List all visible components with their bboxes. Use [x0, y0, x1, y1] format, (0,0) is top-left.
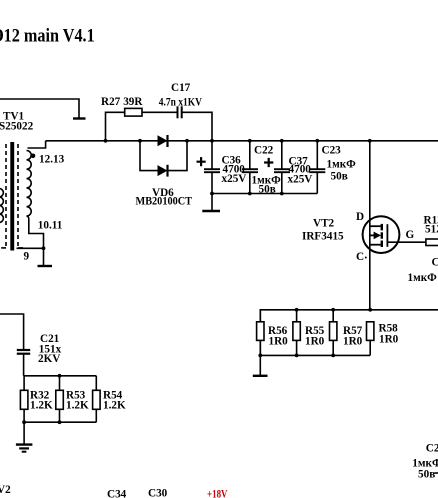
- svg-text:V2: V2: [0, 484, 11, 496]
- svg-text:Э12 main V4.1: Э12 main V4.1: [0, 26, 95, 47]
- svg-text:512: 512: [425, 224, 438, 236]
- svg-text:1R0: 1R0: [343, 336, 363, 348]
- svg-text:1.2K: 1.2K: [103, 400, 126, 412]
- svg-text:C30: C30: [148, 488, 168, 498]
- svg-text:1R0: 1R0: [305, 336, 325, 348]
- svg-text:VT2: VT2: [313, 218, 335, 230]
- svg-text:1мкФ: 1мкФ: [327, 159, 357, 171]
- svg-text:C17: C17: [171, 82, 191, 94]
- svg-text:10.11: 10.11: [38, 220, 63, 232]
- svg-text:1R0: 1R0: [269, 336, 289, 348]
- svg-text:+18V: +18V: [207, 489, 228, 498]
- svg-text:G: G: [406, 229, 415, 241]
- svg-text:2KV: 2KV: [38, 353, 60, 365]
- svg-text:9: 9: [24, 251, 30, 263]
- svg-text:50в: 50в: [331, 171, 348, 183]
- svg-text:1.2K: 1.2K: [66, 400, 89, 412]
- svg-text:C34: C34: [107, 489, 127, 498]
- svg-text:MB20100CT: MB20100CT: [136, 196, 193, 208]
- svg-text:50в: 50в: [259, 183, 276, 195]
- svg-text:D: D: [356, 211, 364, 223]
- svg-text:C22: C22: [254, 145, 274, 157]
- svg-text:C: C: [356, 251, 364, 263]
- svg-text:39R: 39R: [123, 96, 143, 108]
- svg-text:IRF3415: IRF3415: [302, 231, 344, 243]
- svg-text:1.2K: 1.2K: [30, 400, 53, 412]
- svg-text:4.7n x1KV: 4.7n x1KV: [159, 96, 202, 108]
- svg-text:C2: C2: [426, 443, 438, 455]
- svg-text:50в: 50в: [418, 469, 435, 481]
- svg-text:x25V: x25V: [288, 174, 313, 186]
- svg-text:C23: C23: [322, 145, 342, 157]
- svg-text:12.13: 12.13: [39, 154, 65, 166]
- svg-text:1R0: 1R0: [379, 334, 399, 346]
- svg-text:x25V: x25V: [222, 173, 247, 185]
- svg-text:R27: R27: [101, 96, 121, 108]
- svg-text:1мкФ: 1мкФ: [408, 272, 438, 284]
- svg-text:C: C: [432, 257, 438, 269]
- svg-text:S25022: S25022: [0, 121, 34, 133]
